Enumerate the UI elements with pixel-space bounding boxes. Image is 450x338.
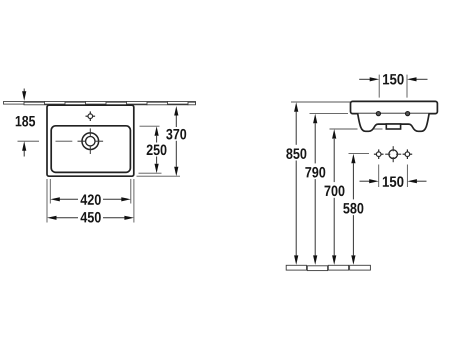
- dimension 420 (bowl width): [60, 198, 122, 200]
- fixing dot right: [406, 112, 410, 116]
- basin bowl inner outline: [51, 126, 130, 173]
- wall hatch band (plan view): [4, 102, 196, 105]
- dimension 150 top (tap hole spacing): [379, 75, 407, 98]
- drain hole target center: [389, 150, 398, 159]
- fixing hole target right: [403, 149, 413, 159]
- drain trap cover rectangle: [386, 124, 400, 129]
- tap hole (circle with crosshair): [82, 133, 99, 150]
- tap hole center line: [18, 140, 73, 142]
- basin rim slab (front view): [351, 101, 438, 113]
- dimension 450 (overall width): [56, 217, 125, 219]
- extension line 850 (to rim top): [291, 101, 351, 103]
- extension lines below basin for 420/450: [47, 179, 134, 223]
- extension lines for 250: [140, 125, 160, 127]
- dimension 580 vertical line: [352, 163, 354, 255]
- dimension 790 vertical line: [314, 123, 316, 255]
- dimension 850 vertical line: [295, 112, 297, 256]
- extension line 580 (to fixing holes): [349, 153, 370, 155]
- dimension 250 (bowl depth): [156, 136, 158, 164]
- fixing dot left: [376, 112, 380, 116]
- dimension 150 middle (fixing hole spacing): [379, 165, 408, 188]
- basin outer outline (plan view): [47, 105, 134, 176]
- extension line 790 (to rim underside): [310, 113, 349, 115]
- overflow hole target symbol: [86, 111, 96, 121]
- floor hatch band: [286, 265, 370, 270]
- fixing hole target left: [374, 149, 384, 159]
- dimension 700 vertical line: [333, 139, 335, 256]
- basin body / apron profile: [358, 114, 429, 132]
- extension line for 370 at basin bottom: [137, 175, 181, 177]
- dimension 370 (overall depth): [175, 116, 177, 167]
- extension line 700 (to basin underside): [330, 128, 358, 130]
- dimension 185 (wall to tap centerline): [23, 89, 25, 157]
